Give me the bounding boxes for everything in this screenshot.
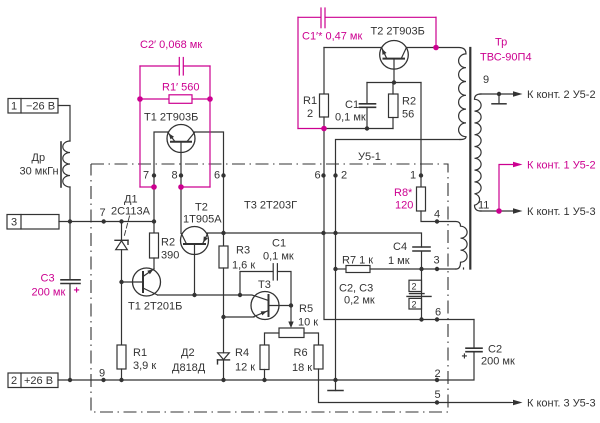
- svg-text:12 к: 12 к: [235, 362, 255, 374]
- svg-text:Д1: Д1: [124, 194, 138, 206]
- svg-text:С2: С2: [488, 344, 502, 356]
- svg-text:1Т905А: 1Т905А: [183, 214, 222, 226]
- svg-text:Т2: Т2: [195, 202, 208, 214]
- svg-text:R8*: R8*: [394, 187, 413, 199]
- svg-text:R2: R2: [161, 237, 175, 249]
- svg-text:К конт. 3 У5-3: К конт. 3 У5-3: [527, 398, 596, 410]
- svg-text:С1: С1: [272, 238, 286, 250]
- svg-text:−26 В: −26 В: [26, 101, 55, 113]
- svg-text:18 к: 18 к: [292, 362, 312, 374]
- svg-text:Д2: Д2: [181, 347, 195, 359]
- svg-text:R1: R1: [303, 95, 317, 107]
- svg-text:1: 1: [11, 101, 17, 113]
- svg-text:1 мк: 1 мк: [388, 255, 410, 267]
- svg-text:R2: R2: [402, 96, 416, 108]
- svg-text:R3: R3: [236, 245, 250, 257]
- svg-text:2: 2: [412, 282, 417, 292]
- svg-text:R1′ 560: R1′ 560: [162, 82, 200, 94]
- svg-text:1: 1: [410, 170, 416, 182]
- svg-text:+26 В: +26 В: [24, 375, 53, 387]
- svg-text:Тр: Тр: [495, 37, 507, 49]
- svg-text:200 мк: 200 мк: [481, 356, 515, 368]
- svg-text:120: 120: [395, 200, 413, 212]
- svg-text:3,9 к: 3,9 к: [133, 360, 156, 372]
- svg-text:2С113А: 2С113А: [111, 206, 151, 218]
- svg-text:390: 390: [161, 250, 179, 262]
- svg-text:R6: R6: [294, 347, 308, 359]
- svg-text:С2, С3: С2, С3: [339, 283, 373, 295]
- svg-text:Т3: Т3: [258, 279, 271, 291]
- svg-text:R1: R1: [133, 347, 147, 359]
- svg-text:7: 7: [143, 170, 149, 182]
- svg-text:0,2 мк: 0,2 мк: [344, 295, 375, 307]
- svg-text:8: 8: [172, 170, 178, 182]
- svg-text:Т1 2Т201Б: Т1 2Т201Б: [128, 301, 182, 313]
- svg-text:5: 5: [435, 389, 441, 401]
- svg-text:200 мк: 200 мк: [32, 287, 66, 299]
- svg-text:6: 6: [315, 170, 321, 182]
- svg-text:56: 56: [402, 109, 414, 121]
- svg-text:Т3 2Т203Г: Т3 2Т203Г: [244, 200, 297, 212]
- svg-text:ТВС-90П4: ТВС-90П4: [480, 52, 532, 64]
- svg-text:9: 9: [99, 368, 105, 380]
- svg-text:С4: С4: [393, 241, 407, 253]
- svg-text:R5: R5: [299, 303, 313, 315]
- svg-text:6: 6: [435, 307, 441, 319]
- svg-text:Т1 2Т903Б: Т1 2Т903Б: [144, 112, 198, 124]
- svg-text:4: 4: [434, 209, 440, 221]
- svg-text:2: 2: [412, 300, 417, 310]
- svg-text:У5-1: У5-1: [358, 151, 381, 163]
- svg-text:С1: С1: [345, 99, 359, 111]
- svg-text:К конт. 2 У5-2: К конт. 2 У5-2: [527, 89, 596, 101]
- svg-text:С3: С3: [41, 273, 55, 285]
- svg-text:6: 6: [214, 170, 220, 182]
- svg-text:10 к: 10 к: [298, 317, 318, 329]
- svg-text:0,1 мк: 0,1 мк: [263, 251, 294, 263]
- svg-text:К конт. 1 У5-2: К конт. 1 У5-2: [527, 160, 596, 172]
- svg-text:7: 7: [100, 207, 106, 219]
- svg-text:11: 11: [478, 200, 489, 212]
- svg-text:Д818Д: Д818Д: [172, 362, 206, 374]
- svg-text:С1′* 0,47 мк: С1′* 0,47 мк: [302, 31, 362, 43]
- svg-text:R4: R4: [235, 347, 249, 359]
- svg-text:3: 3: [11, 217, 17, 229]
- svg-text:2: 2: [11, 375, 17, 387]
- svg-text:Др: Др: [32, 152, 46, 164]
- svg-text:1,6 к: 1,6 к: [232, 260, 255, 272]
- svg-text:С2′ 0,068 мк: С2′ 0,068 мк: [140, 39, 202, 51]
- svg-text:+: +: [462, 352, 468, 363]
- svg-text:2: 2: [341, 170, 347, 182]
- svg-text:30 мкГн: 30 мкГн: [20, 166, 59, 178]
- svg-text:К конт. 1 У5-3: К конт. 1 У5-3: [527, 206, 596, 218]
- svg-text:2: 2: [435, 368, 441, 380]
- svg-text:Т2 2Т903Б: Т2 2Т903Б: [371, 26, 425, 38]
- svg-text:+: +: [74, 285, 80, 297]
- svg-text:2: 2: [307, 108, 313, 120]
- svg-text:R7 1 к: R7 1 к: [342, 255, 373, 267]
- svg-text:3: 3: [434, 255, 440, 267]
- svg-text:0,1 мк: 0,1 мк: [335, 112, 366, 124]
- svg-text:9: 9: [483, 74, 489, 86]
